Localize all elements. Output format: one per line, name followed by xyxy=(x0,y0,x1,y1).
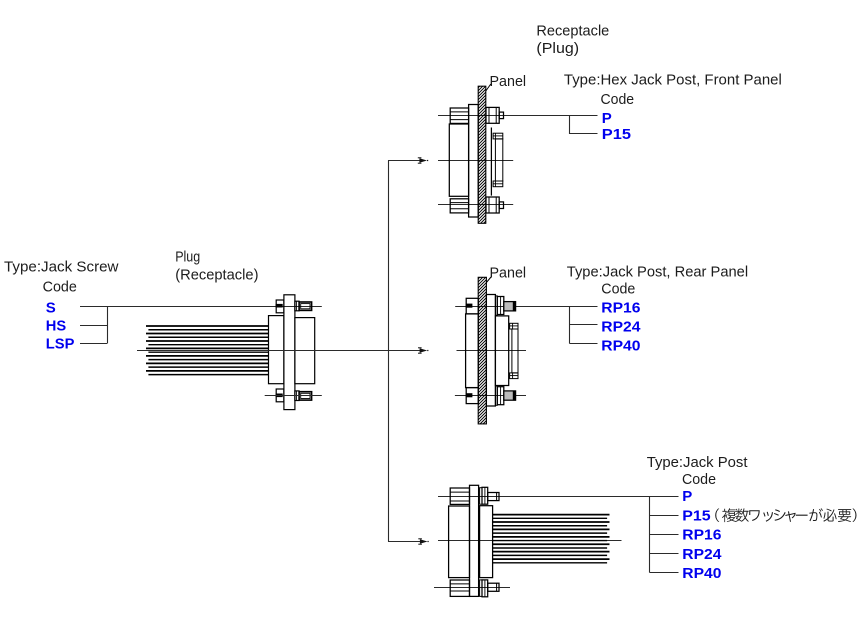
top connector upper post tip xyxy=(499,112,503,119)
svg-text:P15: P15 xyxy=(682,508,710,525)
plug bottom jack-screw neck xyxy=(295,391,299,401)
svg-text:RP40: RP40 xyxy=(601,337,640,354)
plug bottom jack-screw head xyxy=(299,392,312,400)
svg-text:Plug: Plug xyxy=(175,249,200,266)
middle upper threaded stud xyxy=(504,302,516,311)
panel (middle, hatched) xyxy=(478,277,486,424)
svg-text:Code: Code xyxy=(601,281,635,298)
top connector upper hex nut xyxy=(486,107,499,123)
bottom receptacle body xyxy=(449,506,470,578)
plug flange xyxy=(284,295,295,410)
wire LSP stub xyxy=(80,343,107,345)
svg-text:Type:Jack Screw: Type:Jack Screw xyxy=(4,259,119,276)
wire top connector center line xyxy=(438,160,513,162)
svg-text:RP24: RP24 xyxy=(682,546,722,563)
svg-text:Code: Code xyxy=(601,91,635,108)
bottom upper jack-screw knurl xyxy=(450,488,469,504)
wire middle top post line (RP16 row) xyxy=(455,306,597,308)
wire code branch vertical (left) xyxy=(107,307,109,344)
bottom upper washer xyxy=(480,488,482,505)
wire HS stub xyxy=(80,325,107,327)
wire top connector bottom post line xyxy=(438,204,513,206)
svg-text:RP40: RP40 xyxy=(682,565,721,582)
bottom plug body (right) xyxy=(480,506,493,578)
bottom receptacle flange xyxy=(470,485,479,596)
plug top jack-screw neck xyxy=(295,301,299,311)
wire bottom bottom post line xyxy=(434,587,510,589)
plug bottom jack-screw bracket xyxy=(276,389,284,402)
wire middle bottom post line xyxy=(455,395,526,397)
middle plug bottom bracket xyxy=(466,388,478,404)
top mating receptacle lower tab xyxy=(493,181,503,187)
svg-text:Code: Code xyxy=(682,471,716,488)
bottom lower jack-screw knurl xyxy=(450,580,469,596)
svg-text:Receptacle: Receptacle xyxy=(536,22,609,39)
svg-text:RP16: RP16 xyxy=(601,300,640,317)
plug shield body xyxy=(295,318,315,384)
middle receptacle flange (right of panel) xyxy=(486,295,495,407)
wire branch vertical trunk xyxy=(388,161,390,542)
top connector body shell xyxy=(449,124,468,196)
top connector flange xyxy=(469,105,479,218)
svg-text:RP24: RP24 xyxy=(601,318,641,335)
bottom ribbon cable xyxy=(493,515,610,563)
svg-text:Type:Hex Jack Post, Front Pane: Type:Hex Jack Post, Front Panel xyxy=(564,71,782,88)
top mating receptacle face line xyxy=(490,128,492,196)
middle lower washer xyxy=(495,386,497,405)
wire main center line xyxy=(137,350,421,352)
wire bottom top post line (P row) xyxy=(438,496,679,498)
middle mating connector upper tab xyxy=(510,323,518,329)
middle mating connector slim body xyxy=(512,329,518,373)
svg-text:Panel: Panel xyxy=(490,73,527,90)
note (fukusuu washer ga hitsuyou) CJK outline text xyxy=(715,508,856,522)
wire top branch xyxy=(388,160,420,162)
plug backshell xyxy=(269,316,284,384)
svg-text:LSP: LSP xyxy=(46,335,75,352)
wire top post line (P row) xyxy=(438,115,598,117)
svg-text:S: S xyxy=(46,299,56,316)
svg-text:Type:Jack Post: Type:Jack Post xyxy=(647,454,749,471)
bottom lower nut xyxy=(482,580,488,597)
middle plug top bracket xyxy=(466,298,478,314)
top connector lower hex nut xyxy=(486,197,499,213)
svg-text:(Receptacle): (Receptacle) xyxy=(175,267,258,284)
svg-text:HS: HS xyxy=(46,317,66,334)
svg-text:RP16: RP16 xyxy=(682,527,721,544)
plug top jack-screw bracket xyxy=(276,300,284,313)
panel (top, hatched) xyxy=(478,86,486,223)
middle lower nut xyxy=(497,387,504,405)
bottom upper nut xyxy=(482,487,488,504)
arrow to top connector xyxy=(418,158,428,163)
arrow to bottom connector xyxy=(418,539,428,544)
middle upper nut xyxy=(497,297,504,315)
panel leader line (middle) xyxy=(486,277,491,283)
top mating receptacle upper tab xyxy=(493,133,503,139)
bottom upper jack post stud xyxy=(488,493,499,501)
wire RP24/RP40 code branch xyxy=(570,307,598,344)
plug top jack-screw head xyxy=(299,302,312,310)
middle upper washer xyxy=(495,296,497,315)
bottom lower washer xyxy=(480,580,482,597)
top connector lower post tip xyxy=(499,202,503,209)
svg-text:P: P xyxy=(602,110,612,127)
plug ribbon cable xyxy=(146,326,269,375)
top connector lower jack-screw knurl xyxy=(450,199,468,213)
wire P15 code branch xyxy=(570,116,598,134)
wire S code line xyxy=(80,306,322,308)
wire bottom center line xyxy=(438,540,622,542)
bottom lower jack post stud xyxy=(488,583,499,591)
svg-text:(Plug): (Plug) xyxy=(536,40,579,57)
middle plug body (left of panel) xyxy=(466,314,479,388)
wire bottom branch xyxy=(388,541,421,543)
middle lower threaded stud xyxy=(504,391,516,400)
wire plug bottom screw line xyxy=(265,395,322,397)
top connector upper jack-screw knurl xyxy=(450,108,468,123)
top mating receptacle slim body xyxy=(495,139,502,181)
svg-text:Type:Jack Post, Rear Panel: Type:Jack Post, Rear Panel xyxy=(567,264,748,281)
middle mating connector lower tab xyxy=(510,373,518,379)
svg-text:Panel: Panel xyxy=(490,264,527,281)
svg-text:Code: Code xyxy=(43,279,77,296)
wire middle center line xyxy=(457,350,527,352)
panel leader line (top) xyxy=(486,84,491,91)
middle receptacle body xyxy=(495,316,508,386)
svg-text:P15: P15 xyxy=(602,126,631,143)
arrow to middle connector xyxy=(418,348,428,353)
wire bottom code branch xyxy=(650,497,679,573)
svg-text:P: P xyxy=(682,488,692,505)
